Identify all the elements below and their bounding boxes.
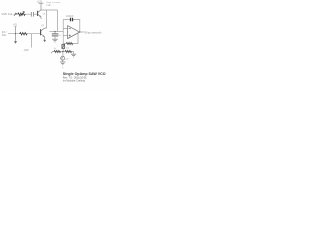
svg-text:+5V: +5V xyxy=(13,23,18,26)
wire 1V/Oct horizontal xyxy=(8,33,40,35)
ground bottom xyxy=(60,62,66,65)
transistor Q1 xyxy=(38,10,41,19)
wire vertical right leg xyxy=(57,10,59,32)
svg-text:Oct: Oct xyxy=(2,33,6,37)
transistor Q2 xyxy=(41,28,47,42)
wire below junction xyxy=(62,52,64,57)
svg-text:1k: 1k xyxy=(54,48,57,50)
svg-text:100pF: 100pF xyxy=(66,16,74,18)
timing capacitor C2 xyxy=(52,31,59,39)
resistor R2 zigzag xyxy=(20,32,28,35)
wire opamp minus stub xyxy=(63,28,67,30)
wire hysteresis net xyxy=(53,51,74,53)
wire opamp plus stub xyxy=(63,35,67,37)
svg-text:+12V: +12V xyxy=(37,0,43,3)
wire vertical left leg xyxy=(46,10,48,28)
arrow to negative rail xyxy=(51,51,53,53)
pot wiper arrow mark xyxy=(14,13,17,16)
wire vertical to negative rail xyxy=(31,34,33,48)
capacitor C1 xyxy=(31,12,33,17)
op-amp U1 xyxy=(68,26,80,39)
svg-text:-12V: -12V xyxy=(24,49,29,52)
svg-text:Q2: Q2 xyxy=(41,25,45,27)
svg-text:5Vpp sawtooth: 5Vpp sawtooth xyxy=(85,31,102,34)
svg-text:PNP: PNP xyxy=(47,5,52,7)
svg-text:high current: high current xyxy=(46,1,60,4)
ground below C2 xyxy=(52,39,58,42)
wire right ground drop xyxy=(73,52,75,55)
svg-text:Q3: Q3 xyxy=(66,58,70,60)
wire Q1 collector rail to timing node xyxy=(41,9,58,11)
node output junction xyxy=(79,31,80,32)
svg-text:Single OpAmp SAW VCO: Single OpAmp SAW VCO xyxy=(63,72,106,76)
ground right xyxy=(71,54,76,57)
wire feedback vertical xyxy=(62,20,64,52)
svg-text:10k: 10k xyxy=(65,47,69,49)
wire top feedback left xyxy=(63,19,70,21)
svg-text:VCF Cut: VCF Cut xyxy=(2,12,13,16)
power rail +12V xyxy=(39,3,44,10)
feedback capacitor C3 xyxy=(71,18,73,22)
potentiometer P1 xyxy=(14,27,17,44)
svg-text:1n: 1n xyxy=(59,35,62,37)
wire lower feedback xyxy=(63,32,78,43)
svg-text:for Modular Crafting: for Modular Crafting xyxy=(63,79,86,82)
wire timing node to opamp input xyxy=(50,31,64,33)
resistor R5 zigzag xyxy=(54,50,61,52)
wire top chain segment xyxy=(14,13,32,15)
resistor R4 vertical xyxy=(62,44,65,48)
resistor R3 zigzag xyxy=(66,42,73,44)
transistor Q3 circle xyxy=(61,56,65,62)
wire cap to Q1 base xyxy=(34,13,38,15)
potentiometer R1 zigzag xyxy=(18,12,26,17)
svg-text:+: + xyxy=(62,67,64,70)
wire output xyxy=(79,31,84,33)
svg-text:Q1: Q1 xyxy=(43,13,47,15)
wire top feedback right xyxy=(73,20,80,33)
junction node xyxy=(62,51,64,53)
resistor R6 zigzag xyxy=(65,50,72,52)
